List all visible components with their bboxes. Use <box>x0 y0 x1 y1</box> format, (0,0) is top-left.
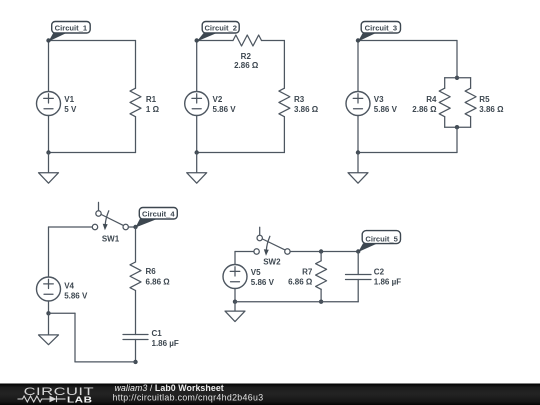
node label bubble Circuit_3 <box>358 22 401 42</box>
wire down to V5 <box>234 252 236 265</box>
voltage source V5 <box>223 265 247 289</box>
wire bottom c3 <box>358 152 457 154</box>
node bottom-left c1 <box>46 150 50 154</box>
node label bubble Circuit_5 <box>358 231 400 252</box>
svg-text:6.86 Ω: 6.86 Ω <box>146 277 171 286</box>
wire switch-left to corner c5 <box>235 251 254 253</box>
wire stub R4 bottom <box>444 117 446 128</box>
node top-left c2 <box>195 38 199 42</box>
svg-text:3.86 Ω: 3.86 Ω <box>479 105 504 114</box>
svg-text:1.86 µF: 1.86 µF <box>152 339 179 348</box>
voltage source V4 <box>37 277 61 301</box>
voltage source V3 <box>346 92 370 116</box>
svg-text:Circuit_3: Circuit_3 <box>365 24 398 33</box>
svg-text:3.86 Ω: 3.86 Ω <box>294 105 319 114</box>
svg-text:V1: V1 <box>64 95 74 104</box>
wire switch-left to corner c4 <box>49 226 93 228</box>
wire left upper c1 <box>48 41 50 92</box>
node R7 bottom c5 <box>319 300 323 304</box>
svg-text:1.86 µF: 1.86 µF <box>374 278 401 287</box>
switch SW1 <box>92 202 128 230</box>
wire R7 top stub <box>320 252 322 261</box>
wire bottom c2 <box>197 152 285 154</box>
node V5-minus c5 <box>233 300 237 304</box>
node V4-minus c4 <box>46 311 50 315</box>
resistor R6 <box>130 262 141 291</box>
wire left lower c1 <box>48 116 50 153</box>
node label bubble Circuit_1 <box>49 22 91 42</box>
svg-text:waliam3 / Lab0 Worksheet: waliam3 / Lab0 Worksheet <box>115 383 224 393</box>
svg-text:R7: R7 <box>302 267 313 276</box>
ground c4 <box>39 313 59 344</box>
wire C2 bottom stub <box>357 280 359 302</box>
ground c2 <box>187 153 207 184</box>
voltage source V1 <box>37 92 61 116</box>
svg-text:V2: V2 <box>213 95 223 104</box>
wire top-left c2 <box>197 40 233 42</box>
wire top-right c2 <box>262 40 285 42</box>
resistor R1 <box>130 88 141 116</box>
resistor R2 <box>233 35 262 46</box>
wire left upper c3 <box>357 41 359 92</box>
wire feed down c3 <box>456 41 458 78</box>
svg-text:V5: V5 <box>251 268 261 277</box>
capacitor C1 <box>123 335 148 340</box>
wire right upper c2 <box>283 41 285 89</box>
wire stub R5 top <box>470 78 472 88</box>
svg-text:R5: R5 <box>479 95 490 104</box>
node bottom-left c3 <box>356 150 360 154</box>
svg-text:V4: V4 <box>64 281 74 290</box>
svg-text:Circuit_4: Circuit_4 <box>142 210 175 219</box>
ground c1 <box>39 153 59 184</box>
svg-text:5.86 V: 5.86 V <box>64 291 88 300</box>
node top-left c3 <box>356 38 360 42</box>
wire top c3 <box>358 40 457 42</box>
wire bottom c1 <box>49 152 136 154</box>
wire switch-right to C2 c5 <box>290 251 358 253</box>
capacitor C2 <box>346 275 372 280</box>
resistor R3 <box>279 88 290 116</box>
svg-text:Circuit_2: Circuit_2 <box>204 24 237 33</box>
wire C1 to bottom node <box>135 340 137 362</box>
svg-text:5.86 V: 5.86 V <box>251 278 275 287</box>
node C2 top c5 <box>356 249 360 253</box>
wire bottom c5 <box>235 301 358 303</box>
wire top c1 <box>49 40 136 42</box>
node parallel top c3 <box>455 76 459 80</box>
wire junction right c4 <box>49 312 76 314</box>
svg-text:LAB: LAB <box>67 396 93 405</box>
svg-text:5.86 V: 5.86 V <box>374 105 398 114</box>
svg-text:V3: V3 <box>374 95 384 104</box>
node top-left c1 <box>46 38 50 42</box>
wire bottom c4 <box>75 361 136 363</box>
svg-text:R6: R6 <box>146 267 157 276</box>
svg-text:SW2: SW2 <box>263 258 281 267</box>
wire left down to V4 <box>48 227 50 277</box>
ground c3 <box>348 153 368 184</box>
wire right lower c2 <box>283 117 285 153</box>
wire node to R6 <box>135 227 137 262</box>
wire C2 top stub <box>357 252 359 275</box>
wire left upper c2 <box>196 41 198 92</box>
wire stub R4 top <box>444 78 446 88</box>
svg-text:5.86 V: 5.86 V <box>213 105 237 114</box>
wire stub R5 bottom <box>470 117 472 128</box>
wire right upper c1 <box>135 41 137 89</box>
logo squiggle resistor-diode <box>18 396 66 402</box>
node label bubble Circuit_4 <box>136 208 178 228</box>
svg-text:C2: C2 <box>374 268 385 277</box>
wire bracket bottom c3 <box>445 126 471 128</box>
svg-text:Circuit_1: Circuit_1 <box>55 24 88 33</box>
switch SW2 <box>254 227 290 255</box>
resistor R5 <box>465 88 476 116</box>
resistor R7 <box>316 261 327 290</box>
wire right lower c3 <box>456 127 458 152</box>
node parallel bottom c3 <box>455 125 459 129</box>
svg-text:5 V: 5 V <box>64 105 77 114</box>
node R7 top c5 <box>319 249 323 253</box>
voltage source V2 <box>185 92 209 116</box>
svg-text:http://circuitlab.com/cnqr4hd2: http://circuitlab.com/cnqr4hd2b46u3 <box>113 393 264 403</box>
wire R7 bottom stub <box>320 289 322 301</box>
svg-text:SW1: SW1 <box>102 234 120 243</box>
node switch c4 <box>133 225 137 229</box>
svg-text:R3: R3 <box>294 95 305 104</box>
wire step down c4 <box>74 313 76 362</box>
svg-text:R4: R4 <box>426 95 437 104</box>
wire left lower c3 <box>357 116 359 153</box>
resistor R4 <box>439 88 450 116</box>
wire left lower c2 <box>196 116 198 153</box>
node bottom-left c2 <box>195 150 199 154</box>
svg-text:Circuit_5: Circuit_5 <box>365 234 398 243</box>
svg-text:6.86 Ω: 6.86 Ω <box>288 278 313 287</box>
wire V4 to junction <box>48 301 50 313</box>
svg-text:2.86 Ω: 2.86 Ω <box>412 105 437 114</box>
wire V5 to bottom <box>234 289 236 302</box>
node label bubble Circuit_2 <box>197 22 240 42</box>
svg-text:2.86 Ω: 2.86 Ω <box>234 61 259 70</box>
node bottom c4 <box>133 360 137 364</box>
wire switch-right to node c4 <box>128 226 135 228</box>
svg-text:1 Ω: 1 Ω <box>146 105 160 114</box>
svg-text:C1: C1 <box>152 329 163 338</box>
svg-text:R1: R1 <box>146 95 157 104</box>
wire bracket top c3 <box>445 77 471 79</box>
ground c5 <box>225 302 245 322</box>
wire R6 to C1 <box>135 291 137 335</box>
wire right lower c1 <box>135 117 137 153</box>
